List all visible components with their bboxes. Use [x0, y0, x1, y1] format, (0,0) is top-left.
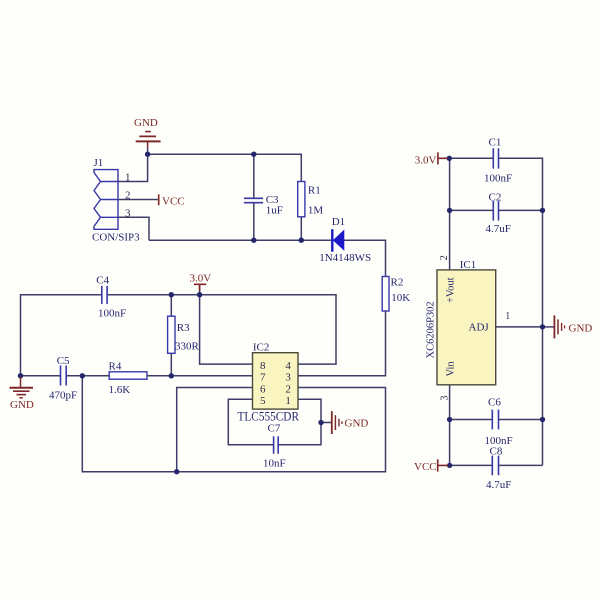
capacitor C7 plates [274, 436, 279, 453]
ground GND2 symbol (pointing down) [10, 377, 34, 398]
svg-text:10nF: 10nF [263, 458, 286, 470]
wire J1 pin3 down to rail y240 [118, 217, 149, 240]
wire C3 top lead [253, 154, 255, 198]
svg-text:C7: C7 [268, 423, 281, 435]
wire IC1 pin2 vertical [449, 158, 451, 270]
wire R2 bottom to IC2 pin3 [298, 311, 386, 376]
svg-text:D1: D1 [332, 216, 345, 228]
svg-text:VCC: VCC [162, 195, 185, 207]
svg-text:ADJ: ADJ [469, 322, 490, 334]
junction node R3 top [169, 292, 174, 297]
diode D1 cathode bar [331, 229, 333, 252]
svg-text:2: 2 [439, 255, 450, 260]
svg-text:J1: J1 [94, 157, 104, 169]
wire IC2 pin5 to C7 left [228, 399, 273, 445]
svg-text:1M: 1M [308, 204, 324, 216]
connector J1 pin2 stub [101, 199, 119, 201]
svg-text:1uF: 1uF [266, 205, 283, 217]
junction node R1 bottom [299, 238, 304, 243]
wire C5 to R4 [67, 375, 110, 377]
svg-text:100nF: 100nF [98, 308, 126, 320]
junction node R3 bottom/R4 [169, 373, 174, 378]
wire C6 rail left [450, 419, 492, 421]
wire C6 rail right [499, 419, 543, 421]
wire GND1 to top rail [147, 148, 149, 154]
ground GND1 symbol (pointing up) [136, 132, 161, 149]
wire GND3 stub [321, 422, 331, 424]
capacitor C5 plates [61, 366, 67, 386]
ground GND4 symbol (pointing right) [554, 315, 564, 338]
wire J1 pin2 to VCC [118, 199, 158, 201]
svg-text:330R: 330R [175, 341, 200, 353]
svg-text:3.0V: 3.0V [190, 272, 212, 284]
svg-text:2: 2 [125, 190, 131, 202]
power 3.0V right bar and stub [438, 152, 448, 164]
wire IC1 ADJ pin1 [496, 326, 543, 328]
junction node 3.0V right [447, 156, 452, 161]
junction node C2 right [540, 208, 545, 213]
capacitor C4 plates [102, 286, 107, 304]
svg-text:1N4148WS: 1N4148WS [319, 252, 371, 264]
wire IC2 pin2 loop to C5/R4 node [82, 376, 385, 472]
junction node GND3 [318, 420, 323, 425]
capacitor C8 plates [492, 456, 498, 476]
svg-text:1: 1 [505, 311, 510, 322]
svg-text:3: 3 [285, 372, 291, 384]
junction node C3 top [251, 152, 256, 157]
svg-text:100nF: 100nF [484, 172, 512, 184]
wire R3 top lead [170, 295, 172, 317]
connector J1 pin3 stub [101, 216, 119, 218]
svg-text:1: 1 [125, 172, 131, 184]
connector J1 body [94, 170, 118, 230]
svg-text:R2: R2 [391, 277, 404, 289]
power VCC bar at J1 pin2 [158, 194, 160, 205]
svg-text:IC1: IC1 [460, 259, 477, 271]
svg-text:7: 7 [260, 372, 266, 384]
wire GND4 stub [543, 326, 554, 328]
diode D1 triangle [334, 231, 344, 250]
junction node C3 bottom [251, 238, 256, 243]
wire D1 anode to R2 top [344, 240, 386, 276]
svg-text:C2: C2 [489, 191, 502, 203]
wire R3 bottom lead [170, 353, 172, 376]
svg-text:470pF: 470pF [49, 389, 77, 401]
capacitor C2 plates [493, 201, 498, 221]
junction node C6 right [540, 417, 545, 422]
junction node 3.0V left [197, 292, 202, 297]
svg-text:Vin: Vin [445, 361, 456, 377]
svg-text:GND: GND [10, 399, 34, 411]
svg-text:C1: C1 [489, 136, 502, 148]
junction node VCC/C8 [447, 463, 452, 468]
junction node GND2 [18, 373, 23, 378]
svg-text:R1: R1 [308, 185, 321, 197]
svg-text:R4: R4 [109, 361, 122, 373]
wire C4 to IC2 pin4 [107, 295, 336, 364]
wire left rail y376 GND to C5 [21, 375, 61, 377]
svg-text:GND: GND [345, 418, 369, 430]
svg-text:4.7uF: 4.7uF [486, 479, 511, 491]
svg-text:3.0V: 3.0V [415, 154, 437, 166]
svg-text:IC2: IC2 [253, 342, 270, 354]
resistor R3 body [168, 316, 175, 353]
capacitor C6 plates [492, 410, 498, 430]
svg-text:+Vout: +Vout [445, 277, 456, 303]
wire C3 bottom lead [253, 203, 255, 240]
svg-text:10K: 10K [391, 292, 410, 304]
wire 3.0V right to C1 [449, 157, 493, 159]
resistor R4 body [109, 372, 147, 379]
wire R1 bottom lead [300, 217, 302, 240]
svg-text:C6: C6 [488, 396, 501, 408]
svg-text:5: 5 [260, 395, 266, 407]
svg-text:1: 1 [285, 395, 291, 407]
wire J1 pin1 to rail [118, 154, 148, 181]
svg-text:VCC: VCC [414, 461, 437, 473]
wire C2 rail right [499, 209, 543, 211]
wire C8 rail left [450, 464, 492, 466]
wire C2 rail left [450, 209, 493, 211]
wire R4 to IC2 pin7 [147, 375, 253, 377]
svg-text:GND: GND [569, 323, 593, 335]
junction node C5/R4 [80, 373, 85, 378]
svg-text:3: 3 [125, 207, 131, 219]
junction node GND1/J1.1/rail [145, 152, 150, 157]
resistor R1 body [298, 182, 305, 217]
ground GND3 symbol (pointing right) [332, 411, 342, 434]
svg-text:GND: GND [134, 117, 158, 129]
wire C1 right and right vertical rail [499, 158, 543, 465]
junction node ADJ/GND4 [540, 324, 545, 329]
svg-text:C8: C8 [490, 445, 503, 457]
wire C8 rail right [499, 464, 543, 466]
svg-text:1.6K: 1.6K [109, 384, 131, 396]
IC U1 box XC6206 [437, 270, 496, 385]
wire left vertical and 3.0V rail y294 to C4 [21, 295, 102, 376]
wire IC2 pin6 down to bottom rail [177, 388, 253, 472]
svg-text:C4: C4 [96, 274, 109, 286]
wire C7 right to IC2 pin1 [278, 399, 321, 445]
power 3.0V left bar and stub [194, 284, 206, 291]
wire IC1 pin3 vertical [449, 385, 451, 466]
svg-text:4: 4 [285, 360, 291, 372]
connector J1 pin1 stub [101, 181, 119, 183]
svg-text:2: 2 [285, 383, 291, 395]
svg-text:C5: C5 [57, 355, 70, 367]
wire rail y240 to D1 cathode [149, 239, 331, 241]
junction node C6 left [447, 417, 452, 422]
svg-text:XC6206P302: XC6206P302 [425, 301, 436, 358]
power VCC bottom bar and stub [438, 459, 448, 471]
junction node C2 left [447, 208, 452, 213]
svg-text:R3: R3 [177, 322, 190, 334]
svg-text:3: 3 [440, 396, 451, 401]
svg-text:6: 6 [260, 383, 266, 395]
svg-text:8: 8 [260, 360, 266, 372]
junction node pin6/bottom rail [174, 469, 179, 474]
IC U2 box TLC555 [253, 353, 299, 409]
svg-text:CON/SIP3: CON/SIP3 [92, 232, 140, 244]
wire top rail y154 and R1 top lead [148, 154, 302, 181]
wire 3.0V left stub to IC2 pin8 [200, 286, 253, 365]
capacitor C3 plates [244, 198, 263, 202]
capacitor C1 plates [493, 148, 498, 168]
resistor R2 body [382, 277, 389, 312]
svg-text:4.7uF: 4.7uF [486, 223, 511, 235]
